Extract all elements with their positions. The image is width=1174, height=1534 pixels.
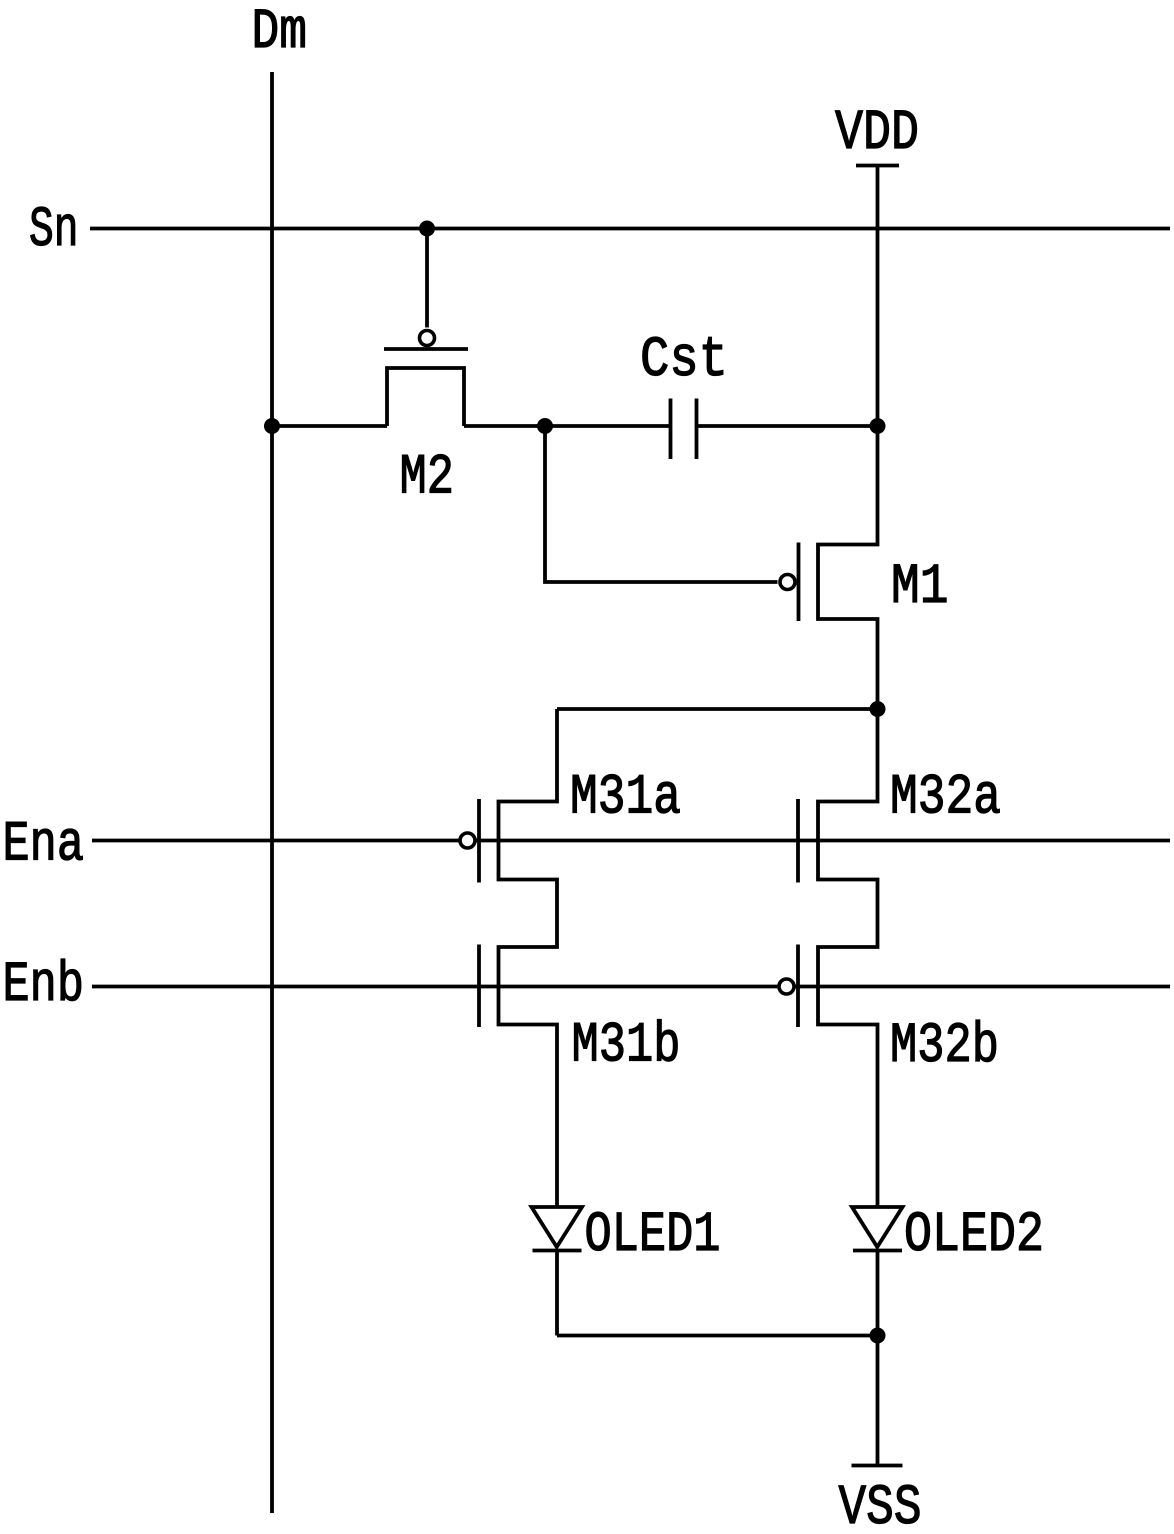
svg-text:Cst: Cst (640, 329, 728, 393)
svg-text:M32b: M32b (890, 1015, 999, 1079)
svg-text:VSS: VSS (839, 1477, 922, 1534)
svg-text:M1: M1 (891, 556, 949, 620)
svg-text:Sn: Sn (29, 199, 79, 263)
svg-text:OLED2: OLED2 (904, 1204, 1044, 1268)
svg-text:M2: M2 (400, 447, 455, 511)
svg-text:M32a: M32a (890, 767, 1001, 831)
svg-text:OLED1: OLED1 (585, 1204, 721, 1268)
svg-text:M31b: M31b (572, 1015, 681, 1079)
svg-text:VDD: VDD (835, 102, 919, 166)
svg-text:M31a: M31a (570, 767, 681, 831)
svg-text:Dm: Dm (252, 1, 308, 65)
svg-text:Ena: Ena (3, 814, 85, 878)
svg-text:Enb: Enb (3, 954, 85, 1018)
